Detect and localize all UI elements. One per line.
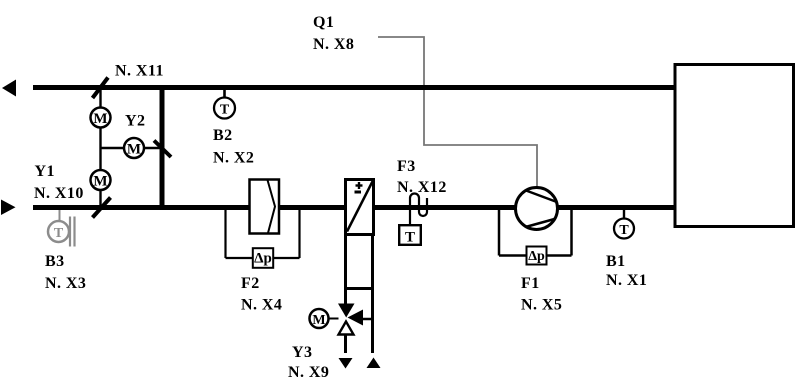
svg-text:Y3: Y3 xyxy=(292,344,312,361)
svg-text:B2: B2 xyxy=(213,127,233,144)
svg-text:N. X12: N. X12 xyxy=(397,179,447,196)
svg-text:Y2: Y2 xyxy=(125,113,145,130)
svg-text:M: M xyxy=(93,173,107,189)
svg-text:M: M xyxy=(127,141,141,157)
svg-text:N. X8: N. X8 xyxy=(313,36,354,53)
svg-text:F3: F3 xyxy=(397,158,416,175)
svg-text:T: T xyxy=(405,230,415,246)
svg-text:T: T xyxy=(220,102,230,117)
svg-text:T: T xyxy=(54,226,64,241)
svg-text:T: T xyxy=(619,223,629,238)
svg-text:M: M xyxy=(93,111,107,127)
svg-text:Δp: Δp xyxy=(254,251,272,267)
svg-text:B1: B1 xyxy=(606,253,626,270)
svg-text:B3: B3 xyxy=(45,253,65,270)
svg-text:N. X11: N. X11 xyxy=(115,63,164,80)
svg-text:N. X9: N. X9 xyxy=(288,364,329,381)
svg-text:N. X1: N. X1 xyxy=(606,272,647,289)
svg-text:Q1: Q1 xyxy=(313,14,334,31)
svg-text:N. X4: N. X4 xyxy=(241,297,282,314)
svg-text:N. X3: N. X3 xyxy=(45,275,86,292)
svg-text:N. X10: N. X10 xyxy=(34,185,84,202)
svg-text:Y1: Y1 xyxy=(35,163,55,180)
svg-text:N. X5: N. X5 xyxy=(521,297,562,314)
svg-text:F2: F2 xyxy=(241,275,260,292)
svg-text:M: M xyxy=(312,313,325,328)
svg-text:N. X2: N. X2 xyxy=(213,150,254,167)
svg-text:Δp: Δp xyxy=(528,249,545,264)
svg-text:F1: F1 xyxy=(521,275,540,292)
